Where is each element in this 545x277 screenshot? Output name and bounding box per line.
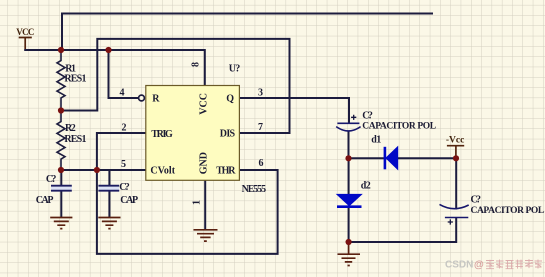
capacitor C4 polarized bottom right	[440, 204, 469, 217]
wire R1R2 junction to DIS pin7	[61, 39, 290, 133]
wire pin3 Q output	[239, 98, 349, 123]
svg-text:CAPACITOR POL: CAPACITOR POL	[362, 122, 435, 132]
svg-text:-Vcc: -Vcc	[446, 135, 464, 145]
capacitor C2 plates	[98, 186, 119, 191]
svg-text:CAP: CAP	[120, 195, 138, 206]
resistor R2	[57, 111, 65, 171]
svg-text:RES1: RES1	[64, 73, 86, 84]
wire pin4 reset riser	[109, 50, 139, 98]
svg-text:THR: THR	[216, 166, 236, 177]
svg-text:GND: GND	[199, 152, 210, 174]
svg-text:4: 4	[120, 88, 125, 99]
node junction dots	[58, 47, 459, 245]
watermark	[445, 259, 542, 270]
wire timing node to CVolt pin5	[61, 169, 146, 171]
svg-text:d1: d1	[371, 134, 381, 145]
wire d1 horizontal net	[349, 131, 457, 159]
svg-text:VCC: VCC	[199, 93, 210, 115]
svg-text:CVolt: CVolt	[150, 166, 175, 177]
svg-text:CSDN: CSDN	[445, 260, 473, 271]
svg-text:CAP: CAP	[36, 195, 54, 206]
diode d1	[385, 147, 398, 170]
op-amp body: NE555 U?	[146, 86, 240, 181]
svg-text:5: 5	[121, 159, 126, 170]
power VCC symbol	[19, 38, 32, 50]
resistor R1	[57, 50, 65, 111]
wire d2 branch	[349, 158, 457, 242]
svg-text:DIS: DIS	[220, 128, 236, 139]
svg-text:8: 8	[191, 62, 202, 67]
svg-text:VCC: VCC	[16, 27, 34, 37]
power -Vcc symbol	[447, 146, 464, 159]
plus sign C3	[351, 115, 356, 120]
wire pin2 TRIG	[97, 133, 146, 170]
svg-text:NE555: NE555	[242, 184, 266, 195]
svg-text:7: 7	[258, 122, 263, 133]
svg-text:d2: d2	[361, 181, 371, 192]
pin4 inversion bubble	[139, 95, 145, 101]
wire VCC rail	[25, 49, 205, 86]
svg-text:RES1: RES1	[64, 134, 86, 145]
ground pin1	[194, 230, 218, 241]
capacitor C1 leads	[60, 170, 62, 217]
wire TRIG-THR loop	[97, 170, 278, 254]
svg-text:CAPACITOR POL: CAPACITOR POL	[471, 206, 544, 216]
ground under C2	[98, 218, 120, 229]
svg-text:3: 3	[258, 88, 263, 99]
svg-text:2: 2	[122, 123, 127, 134]
plus sign C4	[448, 219, 453, 224]
svg-text:1: 1	[192, 200, 203, 205]
capacitor C3 polarized top	[336, 123, 360, 131]
svg-text:TRIG: TRIG	[151, 129, 173, 140]
wire top rail VCC net	[62, 14, 433, 51]
U1 pin names R TRIG CVolt Q DIS THR VCC GND	[150, 93, 236, 177]
ground right d2	[338, 242, 361, 266]
ground under C1	[50, 218, 72, 229]
diode d2	[337, 194, 362, 206]
capacitor C1 plates	[51, 186, 72, 191]
svg-text:6: 6	[259, 158, 264, 169]
svg-text:R: R	[152, 94, 160, 105]
svg-text:@: @	[474, 260, 484, 271]
svg-text:R2: R2	[65, 123, 76, 134]
capacitor C2 leads	[108, 170, 110, 217]
wire pin1 ground stem	[204, 180, 206, 230]
svg-text:U?: U?	[229, 63, 241, 74]
svg-text:Q: Q	[226, 94, 234, 105]
